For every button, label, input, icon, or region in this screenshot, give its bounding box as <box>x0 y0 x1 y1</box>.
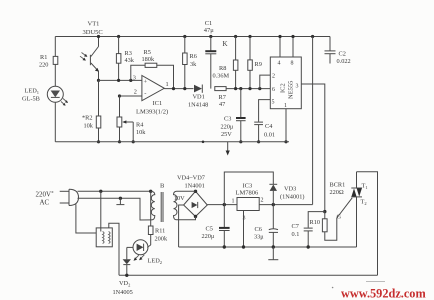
svg-text:0.1: 0.1 <box>292 231 300 238</box>
svg-text:R3: R3 <box>125 50 132 57</box>
LED D1 GL-5B <box>22 86 68 105</box>
AC plug <box>36 189 79 206</box>
svg-text:1N4148: 1N4148 <box>188 102 208 109</box>
svg-text:R6: R6 <box>190 53 197 60</box>
svg-text:3DU5C: 3DU5C <box>83 29 103 36</box>
svg-text:G: G <box>337 214 342 221</box>
wire gate path <box>325 198 352 240</box>
svg-text:25V: 25V <box>221 131 232 138</box>
resistor R3 <box>116 35 134 82</box>
resistor R2 <box>82 80 101 143</box>
svg-text:C7: C7 <box>292 223 299 230</box>
svg-text:AC: AC <box>40 198 50 206</box>
svg-text:220: 220 <box>39 62 48 69</box>
regulator IC3 LM7806 <box>232 183 264 222</box>
resistor R9 <box>248 35 262 90</box>
capacitor C1 47u <box>204 20 217 89</box>
node K <box>223 40 228 48</box>
wire IC3 pin3 to ground rail <box>242 211 245 249</box>
svg-text:1: 1 <box>232 199 235 205</box>
diode VD1 1N4148 <box>188 85 208 109</box>
svg-text:*R2: *R2 <box>82 115 93 122</box>
wire bottom rail <box>119 274 378 276</box>
diode VD2 1N4005 <box>113 247 133 296</box>
wire left branch vertical <box>54 37 56 142</box>
wire DC ground rail <box>179 246 357 248</box>
resistor R7 <box>215 87 270 108</box>
bridge rectifier VD4~VD7 1N4001 <box>177 175 208 220</box>
svg-text:C4: C4 <box>265 123 273 130</box>
wire op-amp output <box>164 88 193 90</box>
svg-text:180k: 180k <box>142 56 155 63</box>
wire bridge minus to DC ground rail <box>179 205 184 247</box>
svg-text:B: B <box>160 183 165 190</box>
svg-text:6: 6 <box>272 87 275 93</box>
svg-text:3k: 3k <box>190 61 197 68</box>
svg-text:2: 2 <box>134 89 137 96</box>
svg-text:GL-5B: GL-5B <box>22 96 40 103</box>
wire IC2 pin1 to ground rail <box>284 109 287 144</box>
wire bridge plus to IC3 input <box>207 203 237 206</box>
resistor R6 pull-up <box>183 35 198 90</box>
resistor R5 feedback <box>129 49 175 90</box>
relay K coil box <box>96 191 119 275</box>
timer IC2 NE555 <box>270 35 301 109</box>
svg-text:LM393(1/2): LM393(1/2) <box>136 109 168 116</box>
svg-text:220Ω: 220Ω <box>330 189 344 196</box>
wire AC line 1 <box>78 190 153 193</box>
svg-text:IC3: IC3 <box>243 183 253 190</box>
ground stub on AC line 2 <box>116 198 124 204</box>
svg-text:43k: 43k <box>125 57 135 64</box>
ground stub below C6 <box>268 247 278 260</box>
svg-text:VD3: VD3 <box>284 186 296 193</box>
triac BCR1 <box>330 172 368 247</box>
svg-text:2: 2 <box>272 74 275 80</box>
capacitor C2 0.022 <box>325 37 351 66</box>
svg-text:R5: R5 <box>144 49 151 56</box>
wire V+ supply vertical <box>311 35 314 205</box>
svg-text:R1: R1 <box>40 54 47 61</box>
svg-text:1N4005: 1N4005 <box>113 289 133 296</box>
svg-text:R10: R10 <box>310 219 321 226</box>
wire plug bottom to relay <box>76 204 96 233</box>
wire top supply rail <box>55 36 330 38</box>
phototransistor VT1 3DU5C <box>80 21 103 81</box>
ground arrow stub <box>226 142 230 156</box>
node emitter junction <box>97 35 100 38</box>
svg-text:R4: R4 <box>136 122 144 129</box>
resistor R1 <box>39 54 58 69</box>
svg-text:47μ: 47μ <box>204 27 215 34</box>
resistor R10 <box>310 212 328 232</box>
svg-text:R9: R9 <box>255 61 262 68</box>
capacitor C3 220u 25V <box>221 87 246 143</box>
capacitor C5 220u filter <box>202 205 230 249</box>
capacitor C7 0.1 <box>292 210 327 249</box>
svg-text:LM7806: LM7806 <box>236 190 260 197</box>
svg-text:4: 4 <box>278 61 281 67</box>
svg-text:-: - <box>144 91 146 98</box>
wire ground rail of top section <box>55 141 289 144</box>
wire T1 to bottom rail <box>357 172 378 276</box>
svg-text:1: 1 <box>166 81 169 88</box>
svg-text:+: + <box>144 79 148 86</box>
svg-text:3: 3 <box>133 75 136 82</box>
wire IC3 output <box>259 203 312 206</box>
wire IC2 pin2 link <box>258 75 270 90</box>
resistor R11 200k <box>148 191 168 245</box>
potentiometer R4 <box>117 94 146 143</box>
resistor R8 <box>213 35 238 90</box>
transformer B <box>151 183 185 223</box>
svg-text:R8: R8 <box>219 65 226 72</box>
svg-text:47: 47 <box>219 101 225 108</box>
svg-text:10V: 10V <box>174 195 185 202</box>
svg-text:200k: 200k <box>155 236 168 243</box>
svg-text:10k: 10k <box>84 123 94 130</box>
svg-text:1: 1 <box>284 103 287 109</box>
svg-text:5: 5 <box>272 100 275 106</box>
svg-text:C6: C6 <box>255 226 262 233</box>
op-amp IC1 LM393(1/2) <box>133 75 169 116</box>
svg-text:IC2: IC2 <box>280 83 287 93</box>
svg-text:220μ: 220μ <box>221 124 234 131</box>
svg-text:C5: C5 <box>206 226 213 233</box>
wire AC line 2 <box>78 197 152 220</box>
svg-text:3: 3 <box>296 84 299 90</box>
svg-text:BCR1: BCR1 <box>330 182 346 189</box>
svg-text:C3: C3 <box>224 116 231 123</box>
svg-text:33μ: 33μ <box>254 234 264 241</box>
svg-text:VD4~VD7: VD4~VD7 <box>177 175 205 182</box>
svg-text:(1N4001): (1N4001) <box>280 194 304 201</box>
svg-text:0.36M: 0.36M <box>213 73 230 80</box>
svg-text:2: 2 <box>261 198 264 204</box>
svg-text:8: 8 <box>291 61 294 67</box>
svg-text:220μ: 220μ <box>202 233 215 240</box>
capacitor C4 0.01 on pin5 <box>254 100 275 144</box>
svg-text:1N4001: 1N4001 <box>185 183 205 190</box>
svg-text:10k: 10k <box>136 129 146 136</box>
svg-text:0.01: 0.01 <box>264 132 275 139</box>
wire op-amp plus input <box>99 79 142 81</box>
svg-text:VD1: VD1 <box>193 94 205 101</box>
svg-text:IC1: IC1 <box>153 100 163 107</box>
svg-text:R7: R7 <box>219 94 226 101</box>
svg-text:C1: C1 <box>205 20 213 27</box>
svg-text:www.592dz.com: www.592dz.com <box>341 287 426 300</box>
capacitor C6 33u <box>254 205 278 249</box>
svg-text:NE555: NE555 <box>288 81 295 99</box>
wire op-amp minus input <box>120 95 142 97</box>
svg-text:0.022: 0.022 <box>337 58 351 65</box>
wire IC2 pin3 output to R10 <box>301 84 325 212</box>
svg-text:R11: R11 <box>155 228 165 235</box>
svg-text:K: K <box>223 40 228 48</box>
diode VD3 1N4001 bypass <box>224 172 304 205</box>
watermark <box>332 282 427 300</box>
LED D2 <box>127 240 162 265</box>
svg-text:VT1: VT1 <box>88 21 100 28</box>
svg-text:C2: C2 <box>339 51 346 58</box>
